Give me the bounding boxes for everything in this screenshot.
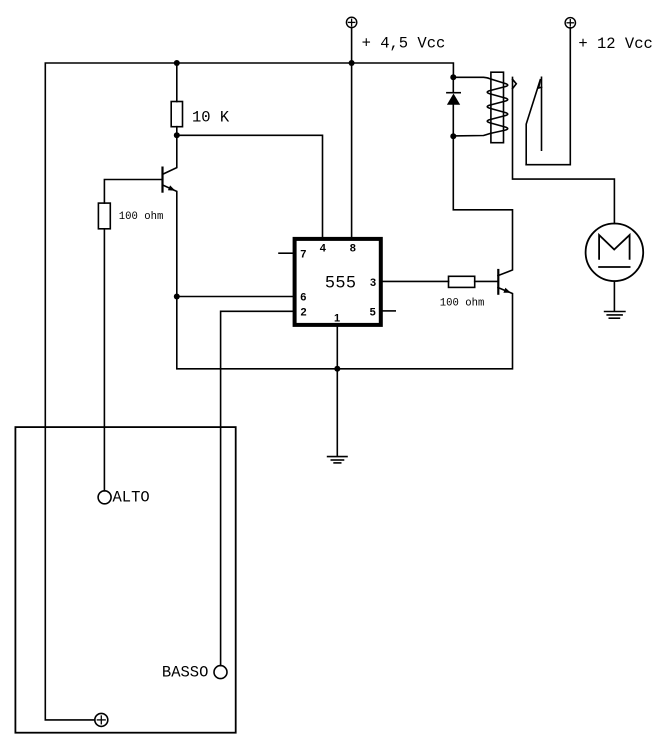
svg-text:8: 8 [350,243,356,255]
svg-text:100 ohm: 100 ohm [440,297,485,309]
svg-text:+ 12 Vcc: + 12 Vcc [578,35,652,53]
svg-text:7: 7 [300,249,306,261]
svg-text:3: 3 [370,277,376,289]
svg-text:10 K: 10 K [192,108,230,126]
svg-text:1: 1 [334,313,340,325]
svg-text:ALTO: ALTO [113,488,150,506]
svg-text:2: 2 [300,307,306,319]
svg-text:+ 4,5 Vcc: + 4,5 Vcc [362,34,446,52]
svg-text:BASSO: BASSO [162,664,209,682]
svg-text:100 ohm: 100 ohm [119,211,164,223]
svg-text:6: 6 [300,292,306,304]
svg-text:4: 4 [320,243,327,255]
svg-text:5: 5 [370,307,376,319]
svg-text:555: 555 [325,273,357,292]
